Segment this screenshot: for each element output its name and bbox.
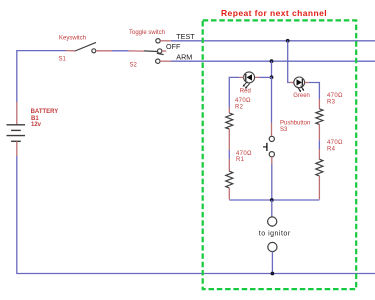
svg-text:ARM: ARM: [176, 53, 192, 62]
wire tee to red LED: [255, 76, 272, 78]
label 470ohm R2: [235, 98, 251, 110]
svg-text:S3: S3: [280, 127, 288, 133]
bottom bus wire: [16, 273, 375, 275]
svg-text:Repeat for next channel: Repeat for next channel: [221, 8, 327, 18]
junction ARM rail: [270, 59, 274, 63]
keyswitch S1: [75, 42, 112, 52]
svg-text:470Ω: 470Ω: [327, 140, 343, 146]
wire ARM rail: [171, 60, 375, 62]
toggle switch S2: [129, 39, 172, 64]
label 470ohm R1: [236, 151, 252, 163]
label Pushbutton S3: [280, 120, 310, 133]
resistor R3: [316, 99, 323, 140]
connector terminal bottom: [268, 242, 277, 251]
svg-text:TEST: TEST: [176, 32, 195, 41]
svg-text:R4: R4: [327, 147, 336, 153]
label BATTERY B1 12v: [31, 109, 59, 128]
wire bottom rail of channel: [229, 199, 319, 201]
svg-text:to ignitor: to ignitor: [259, 230, 291, 237]
wire R2 to R1: [228, 150, 230, 159]
svg-text:R3: R3: [327, 99, 336, 105]
wire green LED to R3: [309, 83, 320, 100]
repeat-for-next-channel dashed box: [203, 20, 357, 289]
svg-text:S1: S1: [59, 57, 67, 63]
wire red LED to left branch: [229, 77, 239, 107]
svg-text:R2: R2: [235, 105, 244, 111]
resistor R4: [316, 149, 323, 200]
pushbutton S3: [263, 123, 274, 164]
resistor R1: [226, 159, 233, 200]
wire R3 to R4: [318, 140, 320, 149]
svg-text:Pushbutton: Pushbutton: [280, 120, 310, 126]
wire battery negative to bottom bus: [16, 156, 18, 274]
wire S3 to bottom rail: [271, 164, 273, 200]
wire TEST rail: [171, 40, 375, 42]
wire TEST drop to green LED: [288, 41, 290, 83]
svg-text:R1: R1: [236, 157, 245, 163]
svg-text:470Ω: 470Ω: [235, 98, 251, 104]
svg-text:12v: 12v: [31, 122, 42, 128]
svg-text:BATTERY: BATTERY: [31, 109, 59, 115]
resistor R2: [226, 108, 233, 151]
svg-text:Red: Red: [240, 89, 251, 95]
wire ARM drop: [271, 61, 273, 77]
LED red: [239, 72, 254, 89]
svg-text:S2: S2: [130, 62, 138, 68]
svg-text:OFF: OFF: [166, 42, 181, 51]
wire rail to connector: [271, 200, 273, 217]
svg-text:Green: Green: [293, 93, 310, 99]
svg-text:470Ω: 470Ω: [327, 93, 343, 99]
battery B1: [7, 102, 26, 156]
label 470ohm R4: [327, 140, 343, 152]
junction bottom rail: [270, 198, 274, 202]
wire pushbutton drop: [271, 77, 273, 123]
connector terminal top: [268, 217, 277, 226]
label Keyswitch S1: [59, 36, 87, 63]
junction bottom bus: [271, 272, 275, 276]
label Toggle switch S2: [129, 30, 165, 69]
label 470ohm R3: [327, 93, 343, 105]
svg-text:Keyswitch: Keyswitch: [59, 36, 86, 42]
junction node LED tee: [270, 75, 274, 79]
wire S1 to S2: [112, 50, 129, 52]
wire battery positive up to top rail: [17, 51, 75, 102]
junction TEST rail: [286, 39, 290, 43]
svg-text:Toggle switch: Toggle switch: [129, 30, 165, 36]
wire connector to bottom bus: [271, 252, 273, 274]
LED green: [290, 77, 309, 92]
